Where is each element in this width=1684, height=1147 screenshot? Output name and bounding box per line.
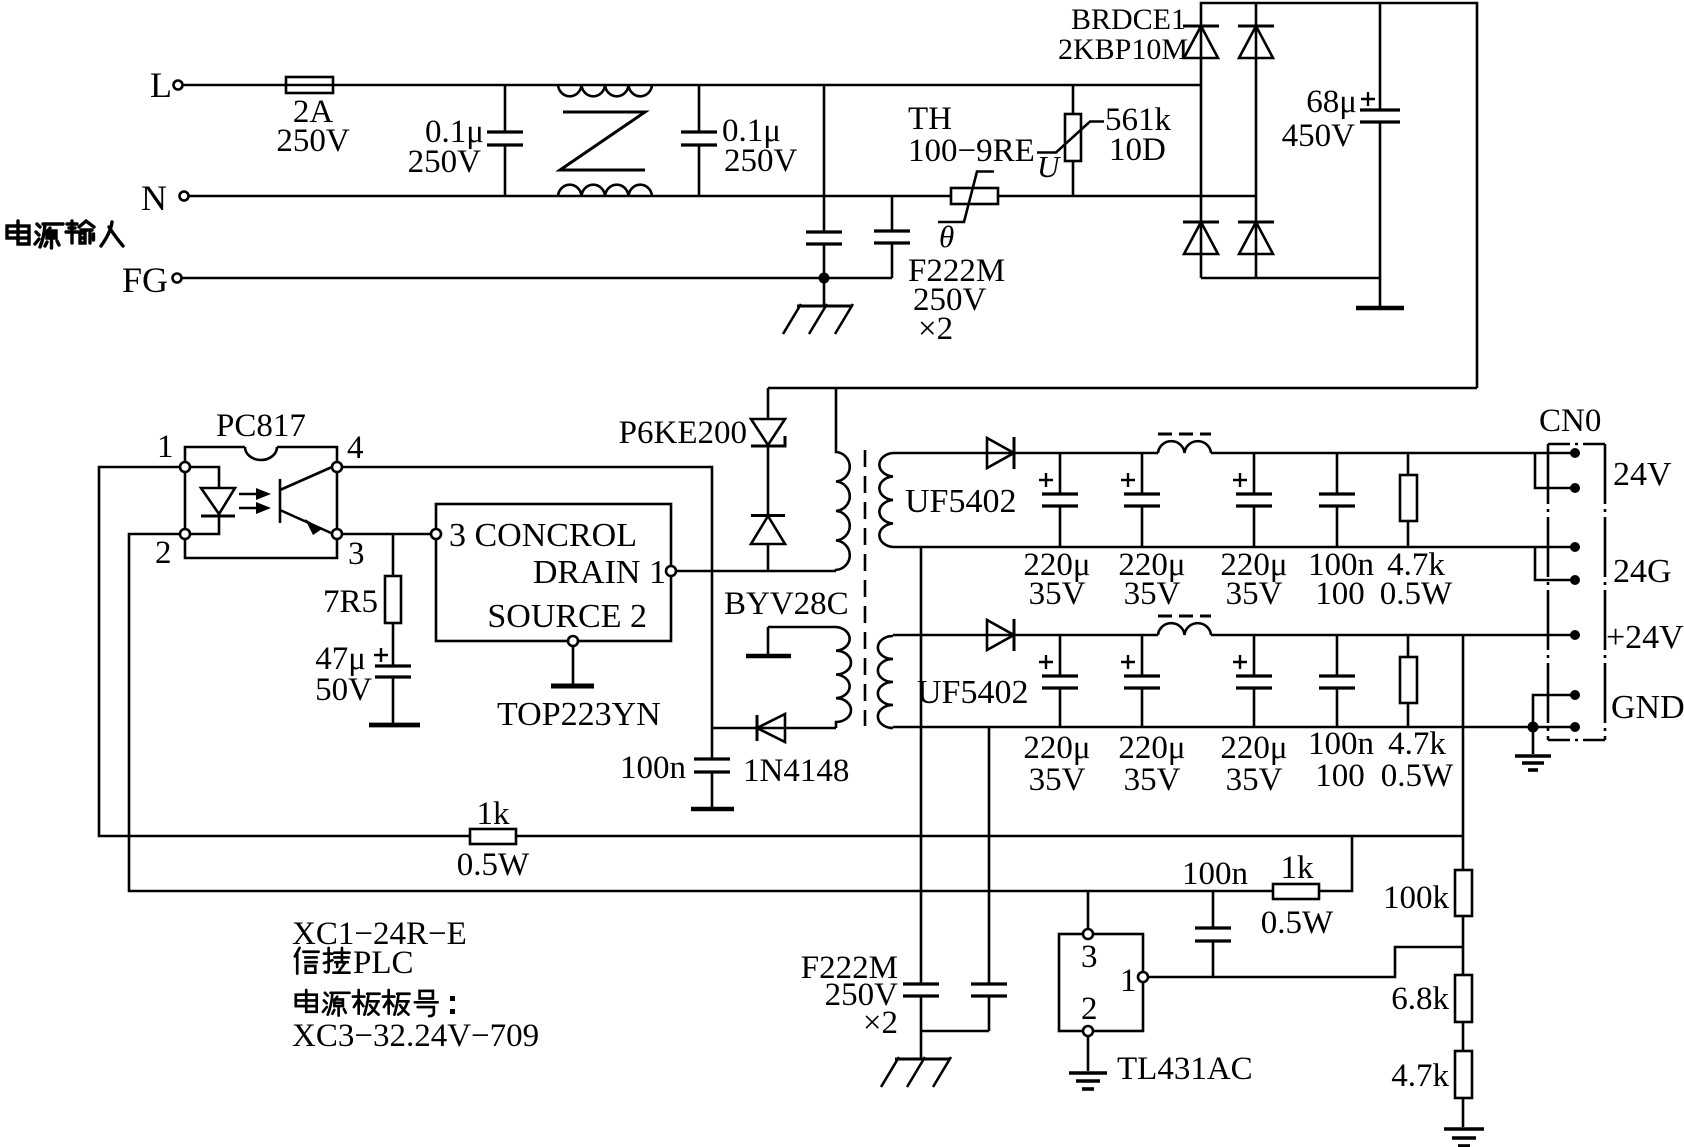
TL431 pin 2	[1083, 1026, 1093, 1071]
svg-text:100: 100	[1315, 758, 1365, 794]
svg-text:3 CONCROL: 3 CONCROL	[449, 517, 637, 554]
svg-text:68μ: 68μ	[1306, 84, 1357, 120]
resistor 1k 0.5W left	[457, 796, 530, 883]
TOP223YN pin drain	[666, 566, 676, 576]
transformer primary winding	[836, 388, 850, 571]
capacitor 100n bias	[620, 750, 734, 809]
svg-text:250V: 250V	[276, 123, 350, 159]
transformer bias winding	[746, 627, 851, 728]
svg-text:100: 100	[1315, 576, 1365, 612]
svg-text:3: 3	[348, 536, 365, 572]
svg-text:UF5402: UF5402	[905, 483, 1016, 520]
svg-text:0.5W: 0.5W	[1381, 758, 1454, 794]
transformer secondary winding 1	[879, 453, 893, 547]
earth ground TL431	[1069, 1073, 1107, 1089]
svg-text:0.5W: 0.5W	[457, 847, 530, 883]
thermistor TH 100-9RE	[908, 101, 1035, 254]
earth ground divider	[1444, 1129, 1484, 1146]
wire L rail	[183, 84, 1201, 87]
capacitor F222M Y1 (L to FG)	[806, 85, 842, 278]
svg-text:U: U	[1037, 149, 1062, 184]
optocoupler PC817 body	[185, 408, 337, 558]
svg-text:GND: GND	[1611, 689, 1684, 726]
svg-text:4: 4	[347, 430, 364, 466]
wire FG rail	[182, 277, 892, 280]
svg-text:2KBP10M: 2KBP10M	[1058, 33, 1188, 66]
CN0 pin 24G b	[1570, 575, 1580, 585]
wire 24G rail	[893, 546, 1575, 549]
TL431 pin 3	[1083, 891, 1093, 939]
common-mode choke core Z mark	[560, 112, 645, 170]
inductor bead ch2	[1158, 616, 1211, 635]
capacitor F222M secondary B	[921, 727, 1007, 1031]
svg-text:0.5W: 0.5W	[1380, 576, 1453, 612]
CN0 pin GND a	[1570, 690, 1580, 700]
svg-text:35V: 35V	[1124, 762, 1181, 798]
capacitor C1 0.1u 250V	[408, 85, 523, 196]
wire drain rail	[677, 570, 836, 573]
junction dot FG node	[819, 273, 830, 284]
svg-text:BRDCE1: BRDCE1	[1071, 3, 1186, 36]
CN0 bracket 24G	[1535, 547, 1575, 580]
svg-text:XC3−32.24V−709: XC3−32.24V−709	[292, 1018, 539, 1054]
svg-text:2: 2	[155, 535, 172, 571]
resistor 6.8k	[1391, 975, 1472, 1051]
svg-text:250V: 250V	[408, 144, 482, 180]
PC817 LED	[190, 467, 235, 534]
IC TL431AC box	[1059, 934, 1253, 1087]
capacitor C2 0.1u 250V	[681, 85, 798, 196]
label F222M 250V x2 (secondary)	[801, 950, 898, 1041]
svg-text:×2: ×2	[918, 311, 953, 347]
capacitor 100n 100 ch2	[1308, 635, 1374, 794]
chassis ground secondary	[881, 1057, 951, 1087]
svg-text:100n: 100n	[1308, 726, 1374, 762]
wire GND rail	[893, 726, 1575, 729]
bridge diode D1	[1183, 26, 1219, 58]
svg-text:24V: 24V	[1613, 456, 1672, 493]
earth ground CN0	[1515, 727, 1551, 770]
capacitor 47u 50V	[315, 641, 420, 725]
diode UF5402 ch2	[917, 619, 1028, 711]
fuse 2A 250V	[276, 77, 350, 159]
capacitor 220u 35V ch2 c	[1220, 635, 1287, 798]
wire pin3 to control	[342, 533, 431, 536]
svg-text:35V: 35V	[1029, 762, 1086, 798]
label board info	[292, 916, 539, 1054]
svg-text:35V: 35V	[1226, 576, 1283, 612]
svg-text:35V: 35V	[1029, 576, 1086, 612]
svg-text:220μ: 220μ	[1220, 730, 1287, 766]
svg-text:+24V: +24V	[1606, 619, 1684, 656]
bridge diode D2	[1238, 26, 1274, 58]
svg-text:100n: 100n	[620, 750, 686, 786]
svg-text:4.7k: 4.7k	[1388, 726, 1446, 762]
wire TL431 ref	[1148, 947, 1463, 977]
svg-text:1k: 1k	[477, 796, 511, 832]
CN0 pin 24V a	[1570, 448, 1580, 458]
svg-text:35V: 35V	[1124, 576, 1181, 612]
wire pin2 to TL431 rail	[129, 534, 1273, 891]
svg-text:10D: 10D	[1109, 132, 1166, 168]
PC817 light arrows	[239, 488, 271, 514]
resistor 4.7k divider	[1391, 1051, 1472, 1127]
wire +24V rail	[893, 634, 1575, 637]
wire pin1 to 1k rail	[99, 467, 470, 836]
CN0 pin 24V b	[1570, 483, 1580, 493]
PC817 pin 4	[332, 430, 364, 472]
svg-text:CN0: CN0	[1539, 403, 1601, 439]
svg-text:0.5W: 0.5W	[1261, 905, 1334, 941]
svg-text:100−9RE: 100−9RE	[908, 133, 1035, 169]
svg-text:×2: ×2	[863, 1005, 898, 1041]
IC TOP223YN box	[436, 504, 671, 733]
capacitor 68u 450V	[1282, 3, 1400, 306]
common-mode choke L1 winding top	[558, 85, 652, 96]
svg-text:1N4148: 1N4148	[743, 753, 849, 789]
PC817 pin 1	[157, 429, 190, 472]
capacitor 220u 35V ch2 b	[1118, 635, 1185, 798]
PC817 pin 2	[155, 529, 190, 571]
capacitor 100n 100 ch1	[1308, 453, 1374, 612]
capacitor 220u 35V ch1 b	[1118, 453, 1185, 612]
CN0 bracket GND	[1533, 695, 1575, 727]
capacitor F222M Y2 (N to FG)	[874, 196, 910, 278]
svg-text:θ: θ	[939, 219, 954, 254]
wire +24V sense drop	[1462, 635, 1465, 870]
capacitor F222M secondary A	[903, 547, 939, 1058]
CN0 pin GND b	[1570, 722, 1580, 732]
svg-text:SOURCE 2: SOURCE 2	[487, 598, 647, 635]
transformer secondary winding 2	[878, 636, 893, 728]
TL431 pin 1	[1138, 972, 1148, 982]
svg-text:35V: 35V	[1226, 762, 1283, 798]
svg-text:1k: 1k	[1281, 850, 1315, 886]
svg-text:FG: FG	[122, 260, 168, 300]
svg-text:100n: 100n	[1182, 856, 1248, 892]
capacitor 220u 35V ch1 a	[1023, 453, 1090, 612]
svg-text:1: 1	[157, 429, 174, 465]
wire 1k rail to +24V sense	[516, 835, 1463, 838]
svg-text:100k: 100k	[1383, 880, 1450, 916]
diode UF5402 ch1	[905, 437, 1016, 520]
svg-text:TOP223YN: TOP223YN	[497, 696, 661, 733]
svg-text:TL431AC: TL431AC	[1117, 1051, 1253, 1087]
svg-text:PC817: PC817	[216, 408, 306, 444]
svg-text:1: 1	[1120, 963, 1137, 999]
ground bar bridge	[1356, 306, 1404, 311]
CN0 bracket 24V	[1535, 453, 1575, 488]
svg-text:24G: 24G	[1613, 553, 1672, 590]
CN0 pin 24G a	[1570, 542, 1580, 552]
svg-text:PLC: PLC	[353, 945, 414, 981]
wire N rail	[189, 195, 1256, 198]
svg-text:7R5: 7R5	[323, 584, 378, 620]
common-mode choke L1 winding bottom	[558, 185, 652, 196]
resistor 1k 0.5W right	[1261, 836, 1352, 941]
wire clamp rail	[768, 387, 1477, 390]
connector CN0 frame	[1539, 403, 1605, 740]
label power input 电源输入	[7, 221, 123, 248]
label F222M 250V x2 (input)	[908, 253, 1005, 347]
capacitor 100n compensation	[1182, 856, 1248, 977]
svg-text:UF5402: UF5402	[917, 674, 1028, 711]
TOP223YN pin source	[551, 636, 594, 686]
TOP223YN pin control	[431, 529, 441, 539]
chassis ground input	[783, 278, 853, 334]
bridge rectifier BRDCE1 2KBP10M frame	[1058, 3, 1477, 388]
diode 1N4148	[712, 714, 849, 789]
CN0 pin +24V	[1570, 630, 1580, 640]
svg-text:2: 2	[1081, 991, 1098, 1027]
svg-text:L: L	[150, 65, 172, 105]
terminal N	[141, 178, 189, 218]
svg-text:P6KE200: P6KE200	[619, 415, 747, 451]
svg-text:DRAIN 1: DRAIN 1	[533, 554, 666, 591]
PC817 phototransistor	[280, 467, 332, 535]
junction dot GND	[1528, 722, 1539, 733]
terminal L	[150, 65, 183, 105]
resistor 7R5	[323, 534, 401, 665]
diode BYV28C	[724, 516, 849, 623]
PC817 pin 3	[332, 529, 365, 572]
svg-text:50V: 50V	[315, 672, 372, 708]
bridge diode D3	[1183, 222, 1219, 254]
wire feedback from pin4	[342, 467, 712, 759]
label xinjie PLC	[295, 945, 414, 981]
bridge diode D4	[1238, 222, 1274, 254]
svg-text:4.7k: 4.7k	[1391, 1058, 1449, 1094]
capacitor 220u 35V ch1 c	[1220, 453, 1287, 612]
resistor 100k	[1383, 870, 1472, 975]
svg-text:6.8k: 6.8k	[1391, 981, 1449, 1017]
capacitor 220u 35V ch2 a	[1023, 635, 1090, 798]
varistor 561k 10D	[1037, 85, 1172, 196]
svg-text:220μ: 220μ	[1023, 730, 1090, 766]
resistor 4.7k 0.5W ch1	[1380, 453, 1453, 612]
terminal FG	[122, 260, 182, 300]
svg-text:N: N	[141, 178, 167, 218]
svg-text:BYV28C: BYV28C	[724, 586, 849, 622]
inductor bead ch1	[1158, 434, 1211, 453]
label board number	[296, 990, 455, 1016]
svg-text:250V: 250V	[724, 143, 798, 179]
transformer core	[864, 450, 867, 726]
svg-text:TH: TH	[908, 101, 952, 137]
svg-text:450V: 450V	[1282, 118, 1356, 154]
resistor 4.7k 0.5W ch2	[1381, 635, 1454, 794]
TVS P6KE200	[619, 388, 785, 515]
svg-text:3: 3	[1081, 939, 1098, 975]
wire 24V rail	[893, 452, 1575, 455]
svg-text:220μ: 220μ	[1118, 730, 1185, 766]
